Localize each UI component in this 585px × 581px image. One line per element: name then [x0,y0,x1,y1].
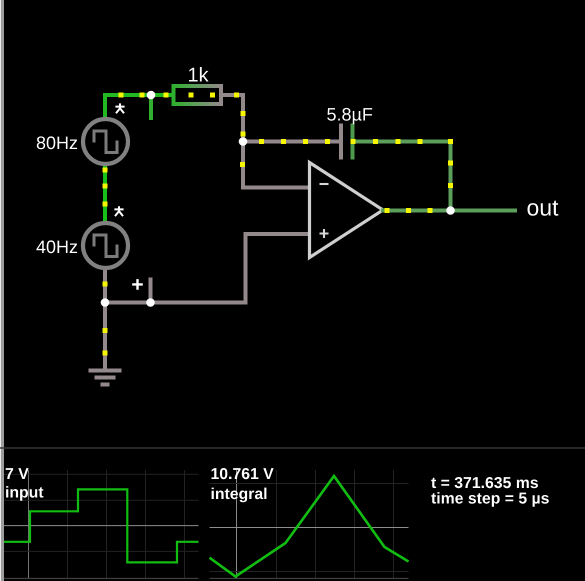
wire node B to capacitor [241,140,341,144]
scope 2 label integral [212,488,267,503]
simulation time text [431,477,538,488]
scope 1 grid [4,470,199,578]
junction node C output [446,206,455,215]
wire to op-amp inverting input [241,186,310,190]
asterisk marker V1 [115,103,124,113]
scope 1 input trace [4,489,199,562]
label 1k [189,67,209,82]
asterisk marker V2 [114,206,123,216]
wire node A to resistor [149,93,174,97]
time step text [431,492,549,507]
wire resistor to corner [221,93,245,97]
wire top horizontal to node A [103,93,153,97]
label out [528,201,559,216]
wire node D to ground [103,303,107,371]
plus marker near node E [132,279,143,290]
junction node A [147,91,156,100]
wire corner down to node B [241,93,245,143]
wire plus input corner down [244,232,248,305]
wire top lead of 80Hz source [103,93,107,119]
wire op-amp output [381,209,451,213]
wire op-amp plus input horizontal [244,232,310,236]
square wave source V2 40Hz circle [83,223,128,268]
scope 2 integral trace [210,476,409,577]
current dots [103,93,454,356]
wire node B down (inverting input path) [241,142,245,190]
scope 2 value 10.761 V [212,468,274,479]
wire stub below node A [149,95,153,120]
scope 2 grid [210,470,409,578]
wire feedback corner down to output node [449,140,453,213]
scope 1 value 7 V [6,468,29,479]
scope 1 label input [6,486,43,501]
window frame left strip [0,0,1,581]
wire plus input bottom horizontal to node E [149,301,248,305]
wire between sources [103,166,107,223]
wire 40Hz source bottom lead [103,269,107,304]
capacitor C1 left plate [339,124,343,160]
square wave source V1 80Hz circle [83,119,128,164]
resistor R1 1k box [174,86,222,104]
scope area separator [0,447,585,449]
op-amp plus sign [320,229,329,238]
wire node D to node E [103,301,153,305]
ground symbol [89,371,122,385]
junction node E [146,298,155,307]
label 5.8uF [327,108,372,124]
label 40Hz [36,240,77,253]
wire output node to out label [449,209,518,213]
capacitor C1 right plate [351,124,355,160]
label 80Hz [37,136,77,149]
op-amp U1 triangle [310,163,384,258]
junction node B [239,137,248,146]
wire stub above node E [149,278,153,303]
op-amp minus sign [320,183,329,185]
wire capacitor to feedback corner [355,140,453,144]
junction node D [101,298,110,307]
